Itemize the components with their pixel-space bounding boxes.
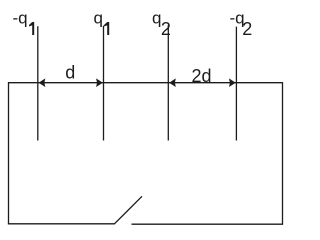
svg-text:d: d: [65, 62, 75, 82]
svg-text:-q: -q: [13, 8, 28, 27]
svg-text:2d: 2d: [192, 66, 212, 86]
svg-text:q: q: [94, 8, 103, 27]
svg-text:2: 2: [242, 19, 252, 39]
svg-text:2: 2: [161, 19, 171, 39]
